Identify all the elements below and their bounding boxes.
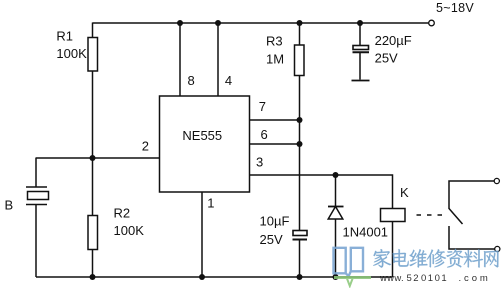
node gnd C2 <box>297 274 303 280</box>
switch contact bottom <box>449 226 495 249</box>
watermark CJK text <box>373 249 498 268</box>
terminal switch top <box>494 178 499 183</box>
piezo buzzer B <box>35 158 37 188</box>
wire pin 8 <box>179 23 181 96</box>
svg-text:52: 52 <box>407 273 421 284</box>
svg-text:1: 1 <box>207 196 214 211</box>
svg-text:NE555: NE555 <box>182 128 222 143</box>
svg-text:1N4001: 1N4001 <box>343 225 389 240</box>
wire pin 4 <box>217 23 219 96</box>
svg-text:R3: R3 <box>266 34 283 49</box>
svg-text:2: 2 <box>142 139 149 154</box>
ground bar under C1 <box>352 80 370 82</box>
svg-text:8: 8 <box>188 73 195 88</box>
svg-text:B: B <box>5 198 14 213</box>
watermark <box>334 248 499 286</box>
node pin3/diode <box>333 172 339 178</box>
svg-text:25V: 25V <box>375 51 398 66</box>
svg-text:6: 6 <box>261 127 268 142</box>
svg-text:100K: 100K <box>114 223 145 238</box>
op IC NE555 box U1 <box>160 96 250 192</box>
node top C1 <box>357 20 363 26</box>
watermark book icon <box>334 248 364 276</box>
svg-text:R1: R1 <box>56 29 73 44</box>
watermark green swoosh <box>334 278 371 287</box>
terminal supply <box>429 20 435 26</box>
svg-text:R2: R2 <box>114 206 131 221</box>
dashed mechanical link <box>417 214 444 216</box>
svg-text:5~18V: 5~18V <box>436 1 474 15</box>
diode D1 1N4001 <box>335 175 337 207</box>
wire bottom ground rail <box>36 276 393 278</box>
resistor R2 <box>92 158 94 216</box>
node pin6/R3 <box>297 141 303 147</box>
node pin2/R1/R2 <box>90 155 96 161</box>
wire pin2 rail <box>36 157 160 159</box>
svg-text:3: 3 <box>256 155 263 170</box>
wire top supply rail <box>93 22 429 24</box>
svg-text:4: 4 <box>225 73 232 88</box>
svg-text:7: 7 <box>259 99 266 114</box>
resistor R3 <box>299 23 301 45</box>
wire pin 1 <box>201 192 203 277</box>
svg-text:K: K <box>400 185 409 200</box>
node top pin8 <box>177 20 183 26</box>
svg-text:0101: 0101 <box>421 273 448 284</box>
node gnd diode <box>333 274 339 280</box>
svg-text:220µF: 220µF <box>375 33 412 48</box>
svg-text:www.: www. <box>379 273 404 284</box>
watermark url <box>379 273 491 284</box>
capacitor C2 10uF <box>293 231 307 236</box>
svg-text:25V: 25V <box>260 232 283 247</box>
capacitor C1 220uF <box>359 23 361 46</box>
wire pin 3 <box>250 175 393 209</box>
resistor R1 <box>92 23 94 39</box>
wire pin 6 <box>250 143 300 145</box>
node gnd R2 <box>90 274 96 280</box>
switch contact top <box>449 181 494 209</box>
svg-text:10µF: 10µF <box>260 213 290 228</box>
relay coil K <box>381 209 406 222</box>
svg-text:1M: 1M <box>266 52 284 67</box>
terminal switch bottom <box>495 246 500 251</box>
node top pin4 <box>215 20 221 26</box>
switch blade <box>449 209 463 225</box>
wire R3 to cap column <box>299 76 301 231</box>
svg-text:100K: 100K <box>56 46 87 61</box>
node gnd pin1 <box>199 274 205 280</box>
svg-text:.com: .com <box>459 273 491 284</box>
node pin7/R3 <box>297 117 303 123</box>
node top R3 <box>297 20 303 26</box>
wire pin 7 <box>250 119 300 121</box>
